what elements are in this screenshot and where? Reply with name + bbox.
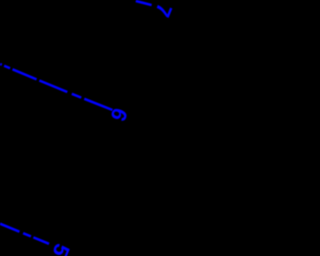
wire contour level 7 (top dashed segment)	[136, 1, 152, 5]
wire contour level 5 (bottom dashed line)	[0, 224, 49, 244]
contour plot: dashed blue level lines with rotated labels on black	[0, 0, 256, 256]
wire contour level 6 (middle dashed line)	[0, 64, 113, 110]
